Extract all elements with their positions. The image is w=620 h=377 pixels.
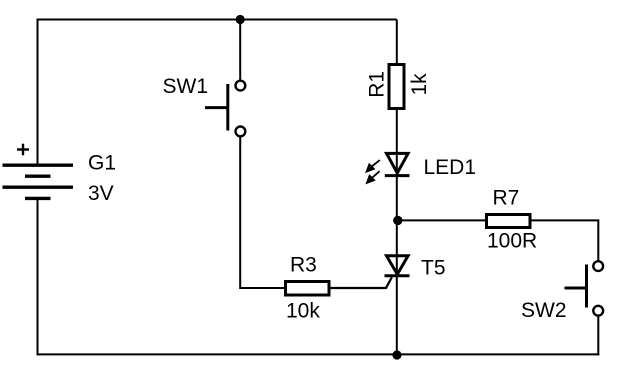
svg-text:100R: 100R xyxy=(487,230,537,253)
wire SW2 bottom lead xyxy=(597,316,599,355)
svg-text:R7: R7 xyxy=(493,187,520,210)
wire SW1 top lead xyxy=(239,20,241,81)
switch SW1 xyxy=(205,81,245,137)
svg-text:10k: 10k xyxy=(286,300,320,323)
wire R1 bottom lead through LED1 to junction xyxy=(396,109,398,220)
switch SW2 xyxy=(565,261,604,315)
wire T5 gate to R3 xyxy=(331,277,392,288)
wire SW1 bottom lead to R3 xyxy=(240,137,284,289)
svg-text:R3: R3 xyxy=(290,254,317,277)
wire top-left vertical (battery + to top rail) xyxy=(37,20,39,166)
LED1 emission arrows xyxy=(367,160,380,183)
wire junction to R7 xyxy=(397,219,486,221)
wire bottom rail horizontal xyxy=(37,353,600,355)
wire top rail horizontal xyxy=(37,19,397,21)
svg-text:T5: T5 xyxy=(421,257,446,280)
wire battery negative lead xyxy=(37,198,39,355)
svg-text:LED1: LED1 xyxy=(424,156,477,179)
wire R1 top lead xyxy=(396,20,398,65)
svg-text:SW1: SW1 xyxy=(163,75,209,98)
svg-text:SW2: SW2 xyxy=(521,299,567,322)
LED LED1 xyxy=(385,153,410,175)
node bottom junction xyxy=(392,350,401,359)
svg-text:3V: 3V xyxy=(88,182,114,205)
thyristor T5 xyxy=(385,256,410,276)
node mid junction xyxy=(393,216,402,225)
resistor R3 xyxy=(286,282,330,296)
battery G1 xyxy=(3,144,74,199)
wire junction through T5 to bottom rail xyxy=(396,220,398,354)
node top junction xyxy=(236,15,245,24)
svg-text:G1: G1 xyxy=(88,152,116,175)
svg-text:R1: R1 xyxy=(366,71,389,98)
resistor R1 xyxy=(389,65,404,109)
wire R7 to SW2 xyxy=(531,220,599,261)
resistor R7 xyxy=(487,215,531,228)
svg-text:1k: 1k xyxy=(408,73,431,96)
